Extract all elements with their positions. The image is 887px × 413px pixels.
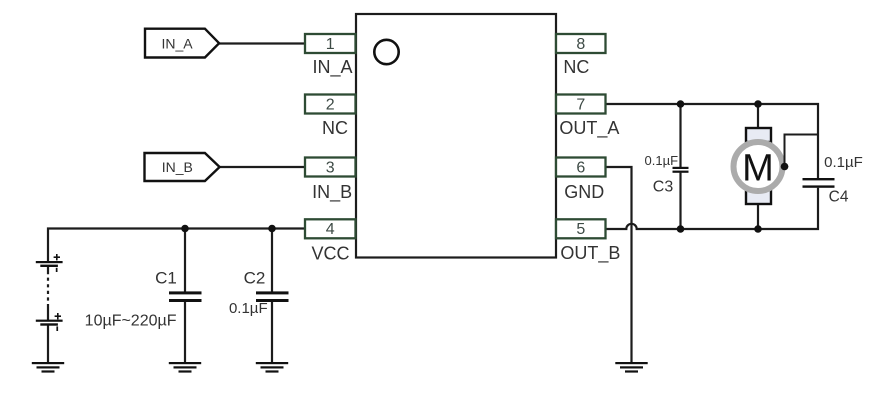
svg-text:C2: C2 bbox=[244, 269, 266, 288]
svg-text:C4: C4 bbox=[829, 189, 849, 206]
svg-text:GND: GND bbox=[564, 182, 604, 202]
svg-text:NC: NC bbox=[563, 57, 589, 77]
svg-text:0.1µF: 0.1µF bbox=[229, 300, 268, 317]
svg-text:OUT_B: OUT_B bbox=[560, 243, 620, 264]
svg-text:4: 4 bbox=[326, 221, 335, 238]
svg-text:OUT_A: OUT_A bbox=[559, 118, 619, 139]
svg-text:VCC: VCC bbox=[311, 243, 349, 263]
svg-text:10µF~220µF: 10µF~220µF bbox=[85, 312, 177, 329]
svg-text:0.1µF: 0.1µF bbox=[645, 153, 679, 168]
svg-text:IN_A: IN_A bbox=[161, 35, 193, 51]
svg-text:C1: C1 bbox=[155, 269, 177, 288]
svg-text:M: M bbox=[742, 147, 774, 189]
svg-text:IN_A: IN_A bbox=[312, 57, 352, 78]
svg-text:IN_B: IN_B bbox=[312, 182, 352, 203]
svg-text:7: 7 bbox=[576, 96, 585, 113]
svg-text:3: 3 bbox=[326, 159, 335, 176]
svg-text:NC: NC bbox=[322, 118, 348, 138]
svg-text:C3: C3 bbox=[653, 179, 674, 196]
svg-text:6: 6 bbox=[576, 159, 585, 176]
svg-text:1: 1 bbox=[326, 36, 335, 53]
svg-text:0.1µF: 0.1µF bbox=[824, 154, 863, 171]
svg-text:2: 2 bbox=[326, 96, 335, 113]
svg-text:5: 5 bbox=[576, 221, 585, 238]
svg-text:8: 8 bbox=[576, 36, 585, 53]
svg-text:IN_B: IN_B bbox=[162, 159, 193, 175]
